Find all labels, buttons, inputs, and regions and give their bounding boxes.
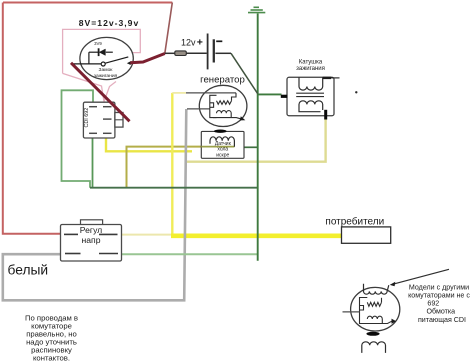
node: HV output lead [323, 77, 331, 79]
node: CDI right connector tab [115, 113, 123, 128]
wire: dark green rail y187.7 [90, 187, 258, 189]
svg-text:питающая CDI: питающая CDI [418, 316, 466, 324]
svg-text:CDI 692: CDI 692 [84, 108, 90, 128]
label bottom left note [25, 314, 78, 363]
diode VD (3V9 zener) [89, 48, 113, 64]
svg-text:зажигания: зажигания [296, 66, 325, 72]
alternative generator G2 [351, 287, 400, 331]
svg-text:белый: белый [8, 263, 49, 278]
wire: pale yellow from generator lead left segment [172, 92, 186, 94]
battery B1 12v [207, 34, 209, 70]
ground [248, 7, 265, 12]
node: G2 arrow [392, 319, 397, 324]
svg-text:+: + [197, 36, 203, 48]
node: G2 rotor oval [366, 332, 379, 336]
generator G1 [199, 85, 247, 126]
svg-text:8V=12v-3,9v: 8V=12v-3,9v [79, 18, 139, 28]
wire: green vertical from CDI bottom-left pin [92, 138, 94, 188]
svg-text:Регул: Регул [80, 225, 102, 235]
label annotation right [408, 283, 470, 324]
wire: dark wire fuse to battery [165, 52, 231, 54]
svg-text:напр: напр [82, 235, 101, 245]
wire: pale yellow vertical from generator top lead [171, 93, 173, 236]
wire: bright yellow band to consumers [171, 234, 342, 239]
ignition coil T1 [287, 77, 334, 115]
svg-text:генератор: генератор [200, 74, 245, 85]
svg-text:692: 692 [427, 299, 439, 307]
voltage regulator box [81, 220, 103, 225]
wire: pale yellow from regulator right top pin [122, 234, 173, 236]
svg-text:контактов.: контактов. [33, 354, 70, 363]
svg-text:искре: искре [216, 153, 229, 159]
node: spark dot [355, 91, 357, 93]
wire: dark green segment hall box to ground line [244, 146, 258, 148]
wire: yellow from CDI bottom-right pin [106, 138, 192, 151]
ignition switch oval [80, 37, 133, 79]
wire: thick dark red kill wire to CDI [71, 63, 130, 122]
node: annotation arrow [393, 269, 450, 284]
consumers box [342, 227, 391, 243]
wire: red diagonal from top to fuse junction [165, 3, 173, 54]
wire: thick dark red switch to fuse [130, 54, 165, 63]
svg-text:потребители: потребители [325, 215, 384, 227]
secondary winding [299, 101, 323, 112]
svg-text:Катушка: Катушка [299, 59, 323, 65]
primary winding [299, 77, 323, 90]
CDI pins [89, 107, 111, 134]
wire: olive line y147 with drop at x126.5 [127, 147, 202, 188]
wire: red left border down to regulator [3, 3, 61, 234]
wire: battery minus diagonal to ground line [231, 53, 258, 93]
wire: red supply net top edge [3, 2, 172, 4]
wire: pale olive loop from ignition coil bottom [186, 118, 325, 162]
svg-text:3V9: 3V9 [94, 41, 102, 46]
svg-text:зажигания: зажигания [94, 74, 118, 79]
node: pink outline around ignition switch [63, 29, 141, 101]
wire: olive segment inside hall box [201, 146, 234, 148]
generator stator winding [210, 93, 243, 119]
svg-text:Модели с другими: Модели с другими [409, 283, 469, 291]
core [296, 92, 324, 94]
node: rotor position oval [214, 130, 227, 133]
fuse [175, 51, 187, 56]
svg-text:Обмотка: Обмотка [427, 307, 456, 315]
generator top lead [186, 92, 236, 94]
commutator U1 CDI 692 box [83, 102, 115, 138]
switch SA ignition lock [73, 57, 128, 66]
node: coil bottom terminal [324, 110, 327, 120]
wire: G2 left lead [343, 311, 360, 313]
wire: pale green from regulator bottom-right pin [122, 253, 258, 255]
node: right contact arrow [127, 61, 132, 65]
generator middle lead [187, 108, 210, 110]
svg-text:комутаторами не с: комутаторами не с [408, 291, 470, 299]
wire: grey loop (white wire) regulator to generator [3, 109, 187, 300]
G2 pickup coil [362, 342, 386, 353]
wire: green ground vertical [257, 14, 259, 261]
wire: green loop CDI top-left pin [62, 90, 94, 187]
hall pickup coil L [210, 137, 234, 147]
G2 feed winding [364, 284, 389, 294]
wire: green from ground line to ignition coil [258, 93, 282, 95]
node: generator rotation arrow [240, 116, 246, 120]
G2 stator winding [360, 298, 393, 324]
svg-text:Замок: Замок [99, 67, 114, 73]
hall sensor box [201, 131, 244, 158]
node: coil left terminal [281, 95, 288, 98]
svg-text:12v: 12v [181, 38, 196, 48]
